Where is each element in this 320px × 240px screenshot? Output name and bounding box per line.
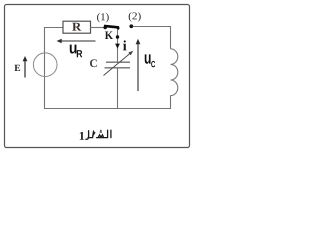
caption Arabic word الشكل [86,130,111,139]
label u_C [145,54,151,63]
wire: capacitor branch lower [117,68,119,109]
wire: bottom [44,108,171,110]
border frame [5,5,190,148]
label u_R [70,45,77,54]
wire: resistor to contact (1) [91,27,105,29]
E arrow [23,56,28,78]
label (1) [97,13,100,23]
label (2) [129,12,132,22]
u_C arrow [136,39,141,91]
inductor L coil [171,49,178,96]
label K [105,31,113,39]
node (1) contact dot [103,26,107,30]
label R [72,23,81,31]
voltage source E1 [33,53,57,77]
wire: contact (2) to inductor branch [133,27,171,49]
node: switch pivot junction [116,35,119,38]
wire: capacitor branch upper [117,29,119,62]
label C [90,59,97,67]
capacitor C plates [106,61,130,63]
caption digit 1 [80,132,84,140]
variable capacitor arrow [104,51,134,76]
label i [123,40,126,50]
u_R arrow [57,39,96,43]
current arrow i [115,44,120,49]
wire: left + top segment to resistor [45,28,64,109]
resistor R [63,21,91,33]
wire: inductor lower [170,95,172,109]
switch K blade [104,26,119,28]
label E [14,65,20,71]
node (2) contact dot [129,24,133,28]
